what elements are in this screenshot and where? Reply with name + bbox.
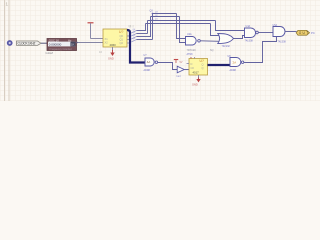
junction oscillator output <box>76 42 78 44</box>
nand-gate U6A bottom left <box>145 58 158 66</box>
nand-gate U4A <box>245 28 259 38</box>
wire U8A out up to U5A <box>244 37 277 63</box>
svg-text:74LS32: 74LS32 <box>222 45 231 48</box>
pin U7 bottom stub <box>198 75 200 78</box>
svg-text:U2A: U2A <box>187 33 192 36</box>
svg-text:74HC20: 74HC20 <box>187 49 197 52</box>
port CLOCK input label <box>17 41 42 46</box>
junction riser dots <box>152 13 154 21</box>
wire U6A out to buffer <box>158 63 177 70</box>
svg-text:X2: X2 <box>105 41 109 45</box>
node CLOCK source marker <box>7 40 13 46</box>
component U1 counter box <box>103 29 127 47</box>
bus entry wire Q3 <box>131 40 136 43</box>
svg-text:Q0: Q0 <box>120 34 124 38</box>
power VCC bar <box>88 23 94 39</box>
wire riser Q0 <box>145 24 147 31</box>
svg-text:G1HZ: G1HZ <box>46 51 54 55</box>
pin U7 left stub <box>187 63 190 65</box>
nand-gate U8A <box>230 58 244 67</box>
wire drop to U2A input1 <box>177 14 186 39</box>
buffer driver <box>177 66 184 73</box>
oscillator G1 frequency generator <box>46 38 77 55</box>
wire U5A out to port <box>285 31 297 33</box>
wire U4A out to U5A <box>258 32 273 34</box>
wire stub Q2 horizontal <box>137 36 152 38</box>
svg-text:U?: U? <box>119 30 123 34</box>
wire VCC to U1 pin <box>91 38 104 40</box>
wire riser Q1 <box>147 21 149 34</box>
wire top line1 <box>153 13 177 15</box>
bus U7 to U8A <box>208 64 231 66</box>
svg-text:Q[..]: Q[..] <box>129 24 134 28</box>
svg-text:OUT: OUT <box>299 31 309 35</box>
wire oscillator to U1 pin <box>77 42 104 44</box>
svg-text:X1: X1 <box>105 37 109 41</box>
svg-text:CK: CK <box>191 66 195 70</box>
svg-text:GND: GND <box>108 57 114 61</box>
svg-text:74LS08: 74LS08 <box>245 40 254 43</box>
svg-text:ATN8: ATN8 <box>187 53 194 56</box>
wire top line4 <box>146 23 211 25</box>
svg-text:GND: GND <box>192 83 198 87</box>
bus entry wire Q1 <box>131 34 136 37</box>
svg-text:ADD8: ADD8 <box>144 69 151 72</box>
and-gate U5A <box>273 27 285 37</box>
bus entry wire Q2 <box>131 37 136 40</box>
wire drop to U3A input <box>211 24 219 36</box>
wire U3A out jog to U4A <box>234 36 245 39</box>
pin U1 right stubs <box>127 36 130 43</box>
svg-text:5V: 5V <box>180 61 183 64</box>
svg-text:Q1: Q1 <box>120 38 124 42</box>
wire label to oscillator <box>41 42 47 44</box>
pin U7 top ticks <box>191 57 195 59</box>
power GND arrow below U1 <box>108 50 115 61</box>
svg-text:D: D <box>191 62 193 66</box>
wire top line2 <box>151 16 180 18</box>
svg-text:PC: PC <box>311 31 315 35</box>
svg-text:Q2: Q2 <box>120 41 124 45</box>
wire buffer to U7 <box>184 69 189 71</box>
svg-text:4017: 4017 <box>193 71 200 75</box>
svg-text:4060: 4060 <box>110 43 117 47</box>
power GND arrow below U7 <box>192 78 201 87</box>
svg-text:&A: &A <box>147 60 151 64</box>
wire top line3 <box>148 20 216 22</box>
svg-text:74LS08: 74LS08 <box>278 41 287 44</box>
bus main vertical <box>127 30 145 63</box>
component U7 counter box <box>189 59 208 76</box>
power pin marker above buffer <box>174 60 183 64</box>
svg-text:7407: 7407 <box>176 76 182 78</box>
svg-text:CLOCK 1KHZ: CLOCK 1KHZ <box>18 42 36 46</box>
bus entry wire Q0 <box>131 31 136 34</box>
svg-text:Q: Q <box>202 63 204 67</box>
svg-text:ΣA: ΣA <box>233 60 237 64</box>
svg-text:SQ: SQ <box>210 49 214 52</box>
port output pulse <box>296 30 309 35</box>
wire stub Q3 horizontal <box>137 39 153 41</box>
wire U2A out to U3A <box>200 40 218 43</box>
wire drop to U2A input2 <box>180 17 186 43</box>
wire stub Q0 horizontal <box>137 30 147 32</box>
svg-text:Q: Q <box>202 66 204 70</box>
wire stub Q1 horizontal <box>137 33 148 35</box>
sheet border outer line <box>8 0 10 101</box>
svg-text:ADD8: ADD8 <box>230 69 237 72</box>
wire riser Q3 <box>152 14 154 40</box>
or-gate U3A <box>218 34 234 44</box>
svg-text:0.000000: 0.000000 <box>49 43 62 47</box>
nand-gate U2A <box>186 37 201 46</box>
sheet border inner line <box>4 0 6 101</box>
svg-text:1K: 1K <box>71 43 75 47</box>
sheet background grid <box>0 0 320 101</box>
wire drop to U4A input <box>216 21 245 31</box>
pin U1 bottom stub <box>112 47 114 51</box>
wire riser Q2 <box>150 17 152 37</box>
svg-text:U?: U? <box>200 59 204 63</box>
